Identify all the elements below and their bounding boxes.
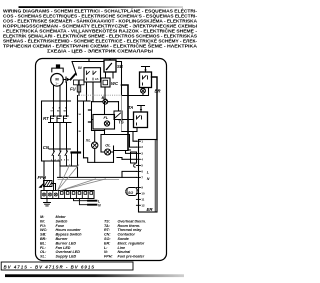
- svg-text:Fan LED: Fan LED: [56, 246, 71, 250]
- svg-text:Fuse: Fuse: [56, 224, 65, 228]
- svg-text:FPH: FPH: [38, 175, 47, 180]
- svg-text:ER:: ER:: [104, 241, 111, 245]
- svg-text:Neutral: Neutral: [118, 250, 132, 254]
- svg-text:RT: RT: [43, 116, 49, 121]
- svg-text:IN:: IN:: [40, 219, 46, 223]
- svg-text:TA:: TA:: [104, 224, 111, 228]
- svg-text:L: L: [147, 171, 149, 175]
- svg-text:Room therm.: Room therm.: [118, 224, 141, 228]
- svg-text:M:: M:: [40, 215, 45, 219]
- svg-text:ΣΧΕΔΙΑ - ЦЕВ - ЭЛЕКТРИК СХЕМАЛ: ΣΧΕΔΙΑ - ЦЕВ - ЭЛЕКТРИК СХЕМАЛАРЫ: [47, 48, 153, 53]
- svg-text:FU: FU: [70, 87, 77, 92]
- svg-text:Overheat LED: Overheat LED: [56, 250, 81, 254]
- svg-text:Overheat therm.: Overheat therm.: [118, 219, 146, 223]
- svg-text:BL:: BL:: [40, 241, 47, 245]
- svg-text:10: 10: [141, 192, 145, 196]
- svg-text:SO:: SO:: [104, 237, 111, 241]
- svg-text:Line: Line: [118, 246, 126, 250]
- svg-text:N: N: [65, 189, 67, 192]
- svg-text:Motor: Motor: [56, 215, 67, 219]
- svg-text:FU:: FU:: [40, 224, 47, 228]
- svg-text:Bypass Switch: Bypass Switch: [56, 233, 83, 237]
- svg-text:Supply LED: Supply LED: [56, 255, 77, 259]
- svg-text:FL:: FL:: [40, 246, 47, 250]
- svg-text:SB: SB: [117, 64, 123, 69]
- svg-text:SB:: SB:: [40, 233, 47, 237]
- svg-text:FPH:: FPH:: [104, 255, 113, 259]
- svg-text:XL:: XL:: [39, 255, 47, 259]
- svg-text:FL: FL: [104, 116, 109, 120]
- svg-text:CN:: CN:: [104, 233, 111, 237]
- svg-text:ER: ER: [147, 207, 154, 212]
- svg-text:N: N: [147, 177, 150, 181]
- svg-text:CN: CN: [43, 145, 50, 150]
- svg-text:1~: 1~: [55, 82, 59, 86]
- svg-text:N: N: [98, 204, 101, 208]
- svg-text:IN: IN: [78, 66, 82, 70]
- svg-text:Contactor: Contactor: [118, 233, 136, 237]
- svg-text:RT:: RT:: [104, 228, 111, 232]
- svg-text:Switch: Switch: [56, 219, 69, 223]
- svg-text:1A: 1A: [95, 77, 99, 81]
- svg-text:TA: TA: [128, 105, 133, 110]
- svg-text:BR:: BR:: [40, 237, 47, 241]
- svg-text:TS: TS: [118, 120, 124, 125]
- svg-text:XL: XL: [85, 139, 92, 143]
- svg-text:WC: WC: [111, 81, 119, 86]
- svg-text:Elect. regulator: Elect. regulator: [118, 241, 145, 245]
- svg-text:12: 12: [141, 203, 145, 207]
- svg-text:BR: BR: [155, 89, 161, 94]
- svg-text:OL:: OL:: [40, 250, 47, 254]
- svg-text:SO: SO: [128, 191, 133, 195]
- svg-text:Burner LED: Burner LED: [56, 241, 77, 245]
- svg-text:Hours counter: Hours counter: [56, 228, 82, 232]
- svg-text:Sonde: Sonde: [118, 237, 129, 241]
- svg-text:11: 11: [141, 198, 144, 202]
- svg-text:BL: BL: [102, 96, 108, 100]
- svg-text:BV 471S - BV 471SR - BV 691S: BV 471S - BV 471SR - BV 691S: [4, 264, 96, 269]
- svg-text:OL: OL: [105, 143, 111, 147]
- svg-text:Fuel pre-heater: Fuel pre-heater: [118, 255, 145, 259]
- svg-text:Thermal relay: Thermal relay: [118, 228, 143, 232]
- svg-text:TS:: TS:: [104, 219, 111, 223]
- svg-text:Burner: Burner: [56, 237, 69, 241]
- svg-text:WC:: WC:: [40, 228, 48, 232]
